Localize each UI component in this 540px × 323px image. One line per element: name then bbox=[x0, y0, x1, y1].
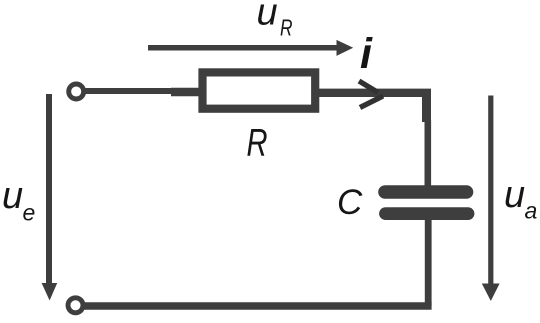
capacitor C: bottom plate bbox=[386, 207, 469, 220]
label u_a bbox=[504, 174, 537, 224]
svg-text:R: R bbox=[280, 15, 293, 41]
wire: capacitor bottom plate down to bottom rail bbox=[425, 219, 432, 306]
label u_e bbox=[2, 175, 35, 226]
wire: resistor to top-right corner and down to capacitor bbox=[315, 89, 431, 189]
capacitor C: top plate bbox=[385, 185, 467, 199]
svg-text:a: a bbox=[525, 198, 538, 224]
voltage arrow u_e (left side, pointing down) bbox=[42, 94, 58, 301]
svg-text:u: u bbox=[504, 174, 525, 216]
svg-text:i: i bbox=[360, 30, 373, 78]
wire: top-left terminal to resistor bbox=[84, 91, 200, 92]
svg-text:u: u bbox=[257, 0, 278, 34]
wire: bottom rail from bottom-left terminal to right branch bbox=[84, 302, 432, 309]
current direction arrow i (open arrowhead on wire) bbox=[359, 81, 383, 108]
svg-text:u: u bbox=[2, 175, 23, 217]
svg-text:e: e bbox=[23, 200, 36, 226]
label u_R bbox=[257, 0, 293, 41]
node: bottom-left input terminal bbox=[68, 298, 83, 313]
voltage arrow u_a (right side, pointing down) bbox=[482, 96, 500, 302]
node: top-left input terminal bbox=[69, 84, 84, 99]
svg-text:C: C bbox=[337, 183, 363, 222]
resistor R bbox=[203, 72, 316, 108]
svg-text:R: R bbox=[247, 122, 268, 165]
voltage arrow u_R (above resistor, pointing right) bbox=[148, 40, 353, 56]
